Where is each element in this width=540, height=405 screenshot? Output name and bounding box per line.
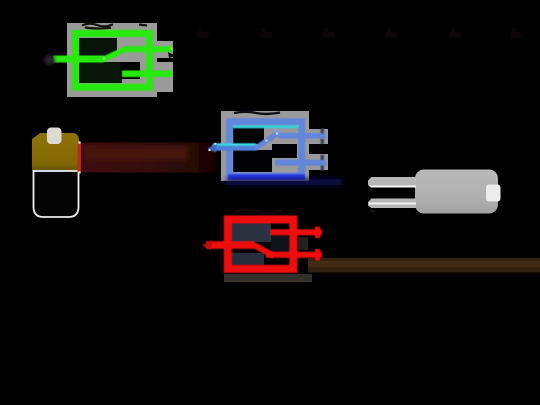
relay K3 NC contact wire (266, 252, 322, 258)
wire W2 (relay K3 to connector, brown) (308, 258, 540, 273)
relay K2 bottom shadow smear (226, 179, 342, 185)
relay K3 common terminal wire (206, 241, 254, 249)
relay K3 NO tick (315, 227, 320, 239)
header tick mark 5 (449, 28, 462, 36)
relay K1 (green) background panel (67, 23, 173, 97)
wire W1 (battery to relays, maroon) (79, 143, 216, 173)
relay K2 coil box (230, 122, 302, 176)
relay K1 label text (82, 24, 147, 29)
relay K1 NC contact wire (122, 71, 172, 78)
connector J1 release tab (486, 185, 501, 202)
relay K1 NO contact wire (128, 46, 172, 52)
relay K3 switch arm (252, 244, 274, 256)
switch arm sparkle 1 (265, 139, 267, 141)
relay K2 box top inner highlight (233, 125, 299, 128)
relay K2 common terminal wire (212, 145, 256, 151)
relay K3 terminal arrowhead (202, 241, 212, 251)
battery B1 top (olive) (32, 133, 79, 171)
relay K2 label text (234, 112, 280, 114)
header tick mark 1 (196, 28, 209, 36)
header tick mark 2 (259, 28, 272, 36)
terminal sparkle 2 (214, 143, 216, 145)
connector J1 pin 2 (368, 199, 416, 214)
relay K2 box bottom edge (228, 174, 305, 180)
relay K3 NO contact wire (270, 229, 322, 235)
battery B1 body (black, white outline) (34, 171, 79, 217)
relay K1 switch arm (103, 48, 129, 60)
switch arm tip arrow (274, 130, 282, 137)
smudge left of K1 terminal (44, 55, 55, 65)
junction sparkle top (78, 141, 81, 144)
battery top-left shadow notch (32, 133, 41, 140)
relay K1 coil box (76, 33, 150, 87)
relay K2 terminal arrowhead (208, 144, 218, 153)
relay K1 common terminal wire (53, 56, 104, 63)
relay K2 (blue) background panel (221, 111, 328, 181)
connector J1 body (415, 170, 498, 214)
relay K3 (red) inner panels (224, 222, 312, 282)
battery B1 terminal tab (47, 128, 62, 145)
connector J1 pin 1 (368, 177, 416, 192)
wire W1 core highlight (84, 147, 188, 160)
relay K2 NC tick (321, 155, 325, 171)
relay K2 common terminal highlight (213, 143, 256, 146)
header tick mark 6 (510, 28, 523, 36)
relay K2 switch arm (255, 133, 279, 149)
header tick mark 4 (385, 28, 398, 36)
node tip mark (green NO end) (168, 52, 176, 58)
relay K2 NC contact wire (275, 160, 326, 166)
wire W2 shading (308, 261, 540, 267)
terminal sparkle 1 (208, 149, 210, 151)
junction sparkle bottom (78, 171, 81, 174)
relay K3 coil box (228, 220, 294, 269)
relay K3 NC tick (315, 249, 320, 261)
relay K2 NO contact wire (278, 133, 326, 139)
relay K3 label text (234, 210, 282, 212)
green NO tip glint (170, 47, 172, 49)
switch arm bend sparkle (103, 57, 106, 60)
header tick mark 3 (322, 28, 335, 36)
wire W1 junction sliver (78, 143, 82, 172)
switch arm sparkle 2 (276, 132, 278, 134)
relay K2 NO tick (321, 129, 325, 145)
